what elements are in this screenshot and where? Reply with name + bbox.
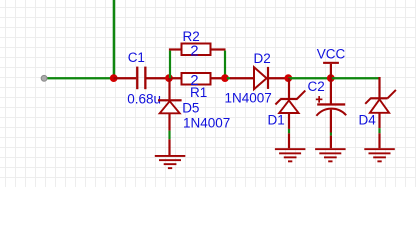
node junction J1 [110,74,118,82]
svg-text:1N4007: 1N4007 [225,91,272,106]
wire [288,129,290,133]
node junction J5 [327,74,335,82]
svg-text:C2: C2 [308,79,325,94]
svg-text:1N4007: 1N4007 [183,116,230,131]
wire [288,77,331,79]
ground [155,139,186,169]
capacitor C2 [308,78,347,133]
svg-text:D2: D2 [254,51,271,66]
wire [113,0,116,78]
svg-text:0.68u: 0.68u [127,92,161,107]
ground [275,133,306,162]
ground [315,136,346,163]
svg-text:D1: D1 [268,113,285,128]
diode D2 [225,51,286,106]
svg-text:2: 2 [190,72,198,89]
capacitor C1 [114,50,169,107]
wire [44,77,114,79]
wire [378,128,380,133]
zener diode D4 [359,77,396,128]
ground [364,133,395,162]
svg-text:VCC: VCC [317,47,346,62]
resistor R1 [169,72,225,100]
diode D5 [158,78,230,131]
svg-text:2: 2 [190,42,198,59]
node open pin [41,75,47,81]
resistor R2 [169,29,226,60]
wire [227,77,230,79]
node junction J2 [165,74,173,82]
power port VCC [317,47,346,79]
wire [168,131,170,140]
svg-text:C1: C1 [128,50,145,65]
wire [330,133,332,136]
svg-text:D5: D5 [182,101,199,116]
node junction J3 [221,74,229,82]
wire [331,77,380,79]
wire [169,51,171,79]
wire [285,77,289,79]
zener diode D1 [268,78,306,129]
node junction J4 [284,74,292,82]
svg-text:D4: D4 [359,113,377,128]
wire [224,51,226,79]
